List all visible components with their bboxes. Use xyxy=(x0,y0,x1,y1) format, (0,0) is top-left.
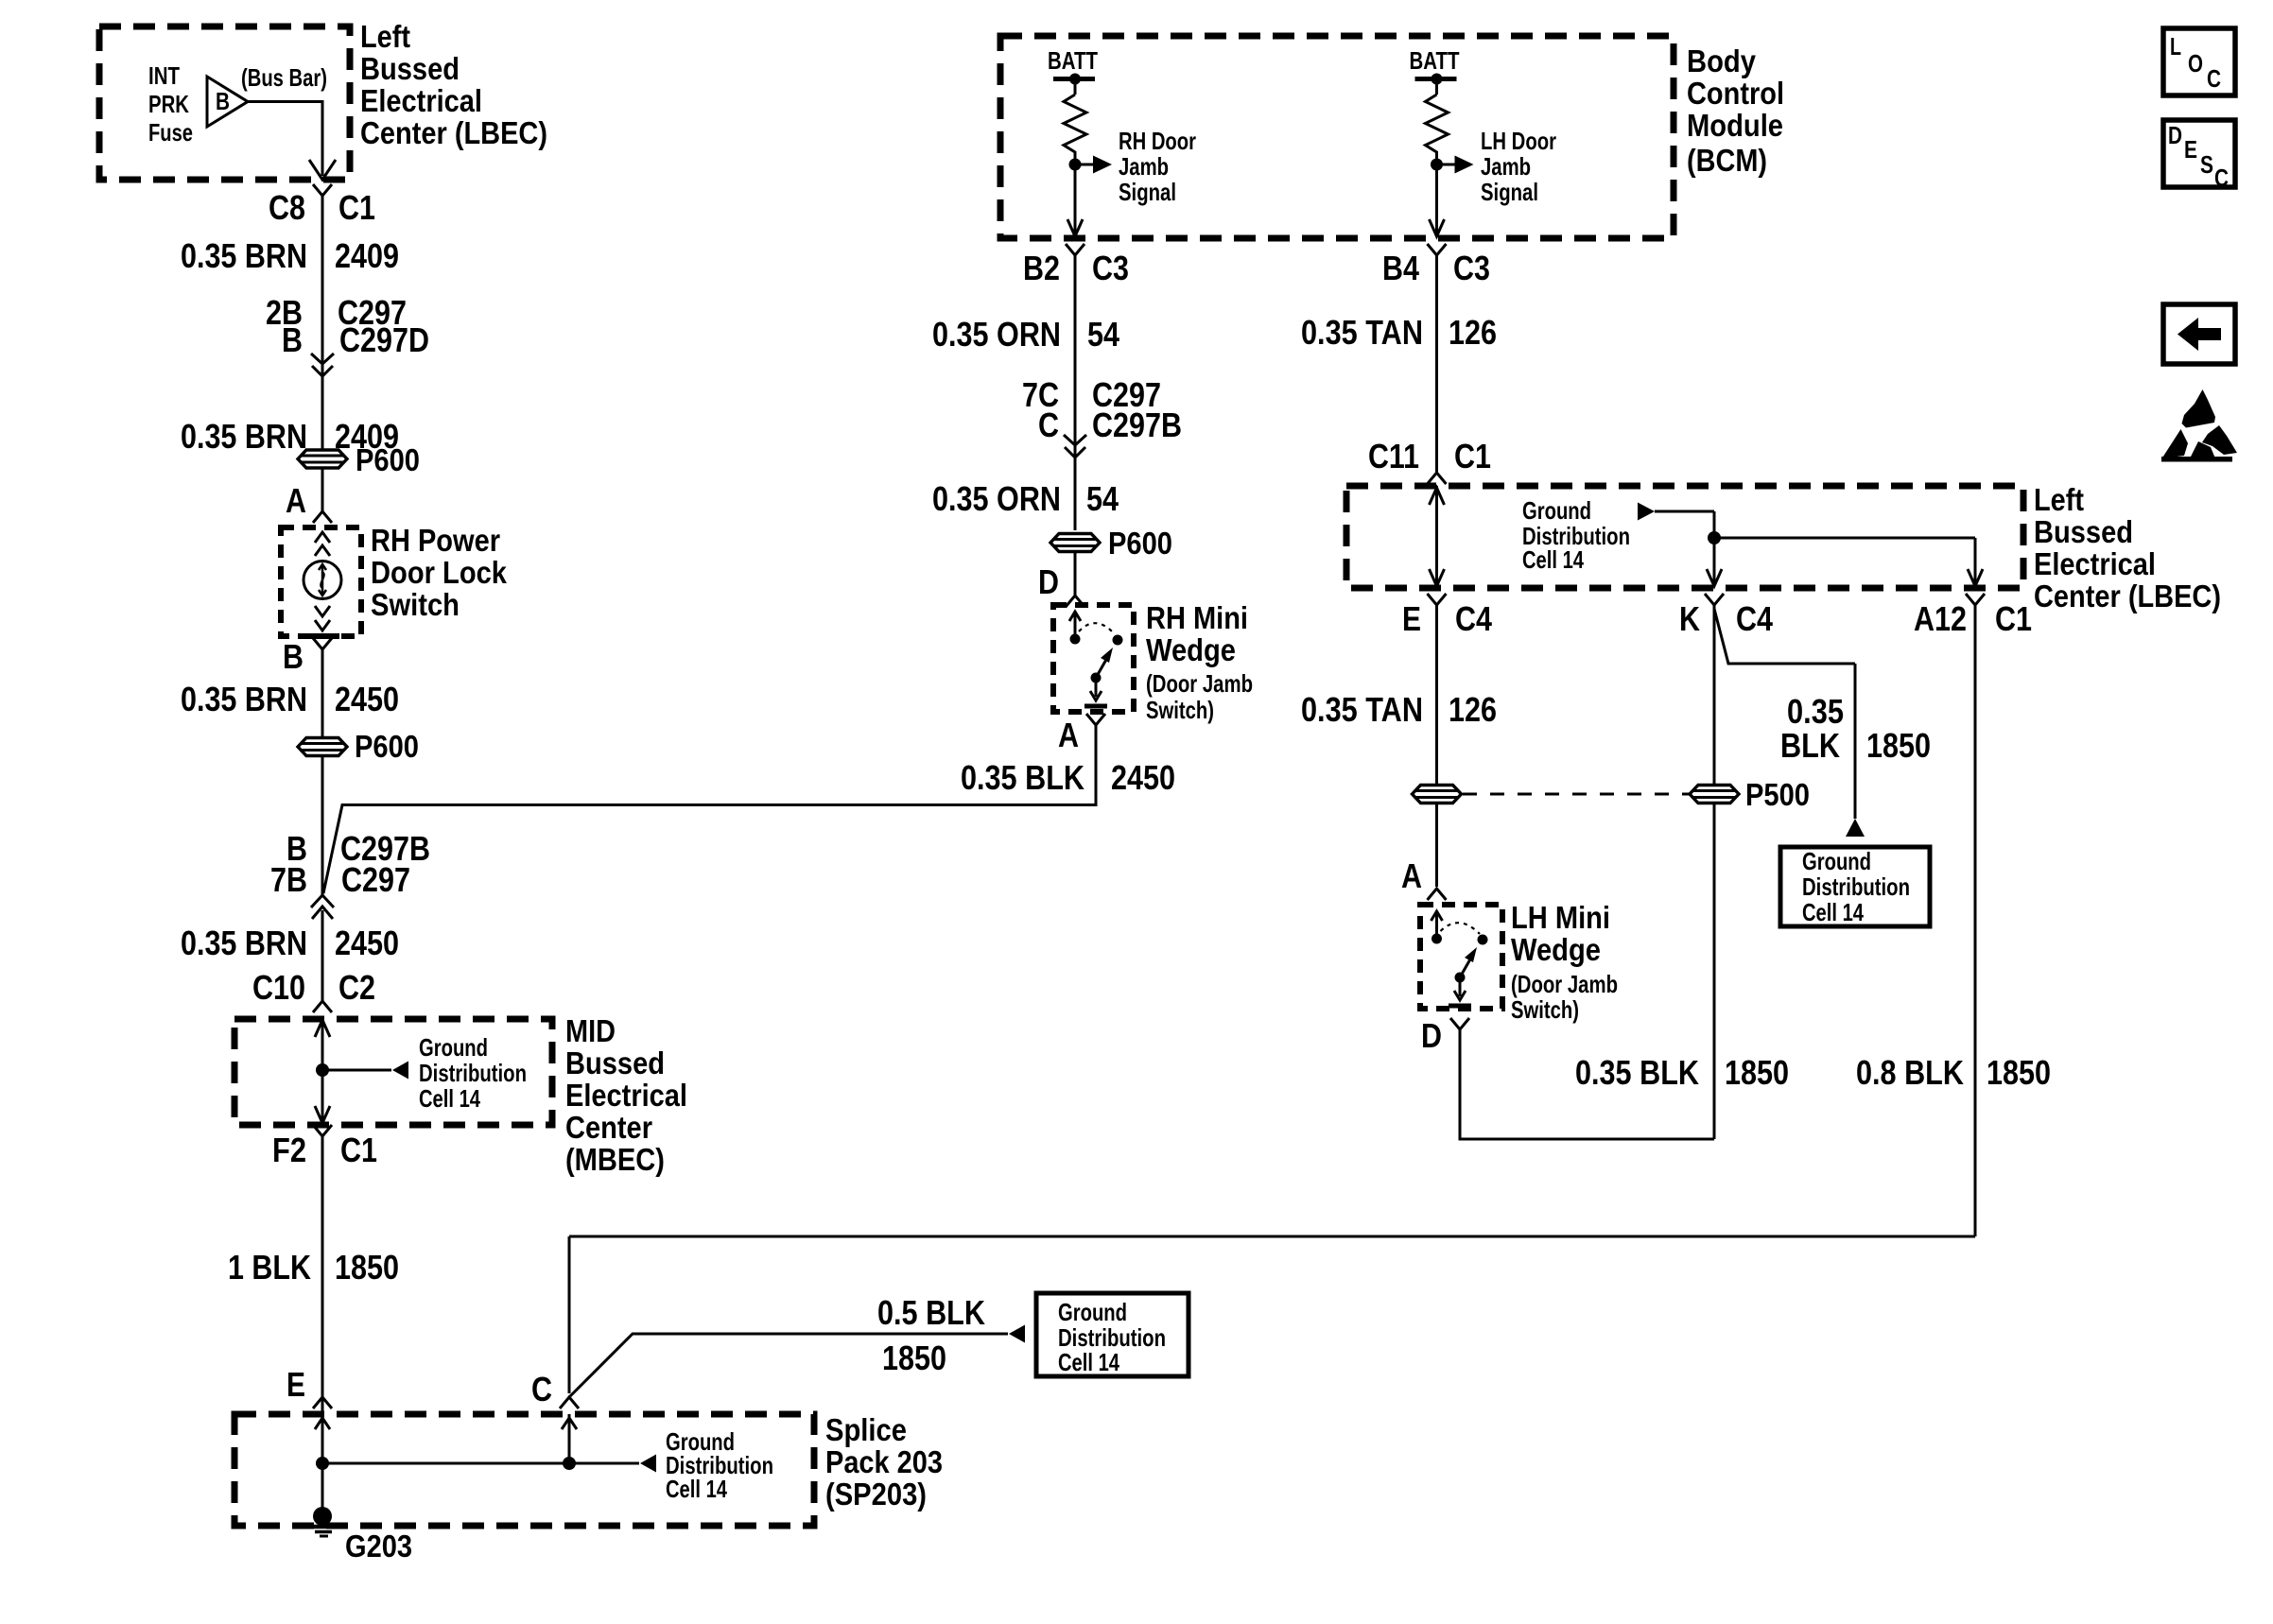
svg-text:Jamb: Jamb xyxy=(1119,152,1169,181)
svg-text:LH Mini: LH Mini xyxy=(1511,900,1610,935)
svg-text:C1: C1 xyxy=(340,1131,377,1169)
svg-text:C3: C3 xyxy=(1092,249,1129,287)
svg-text:0.35 BRN: 0.35 BRN xyxy=(181,236,307,275)
svg-text:D: D xyxy=(1421,1016,1442,1055)
svg-text:0.35 TAN: 0.35 TAN xyxy=(1301,313,1423,352)
svg-text:Bussed: Bussed xyxy=(2034,514,2133,549)
svg-text:B2: B2 xyxy=(1023,249,1060,287)
svg-text:C10: C10 xyxy=(252,968,305,1007)
svg-text:1850: 1850 xyxy=(1987,1053,2051,1092)
svg-text:C8: C8 xyxy=(269,188,305,227)
svg-text:1850: 1850 xyxy=(1866,726,1931,765)
svg-text:0.35 BLK: 0.35 BLK xyxy=(1575,1053,1699,1092)
svg-text:1850: 1850 xyxy=(1725,1053,1789,1092)
svg-text:C1: C1 xyxy=(1995,599,2032,638)
svg-text:Bussed: Bussed xyxy=(565,1045,665,1080)
svg-text:Center (LBEC): Center (LBEC) xyxy=(360,115,547,150)
svg-text:0.8 BLK: 0.8 BLK xyxy=(1856,1053,1964,1092)
svg-text:Control: Control xyxy=(1687,76,1784,111)
svg-text:B4: B4 xyxy=(1382,249,1419,287)
svg-text:Ground: Ground xyxy=(1802,847,1871,875)
svg-text:G203: G203 xyxy=(345,1529,412,1564)
svg-text:C4: C4 xyxy=(1455,599,1492,638)
svg-text:Signal: Signal xyxy=(1119,178,1176,206)
svg-text:A: A xyxy=(286,481,306,520)
svg-text:RH Door: RH Door xyxy=(1119,127,1196,155)
svg-text:S: S xyxy=(2200,150,2213,179)
svg-text:Module: Module xyxy=(1687,108,1783,143)
svg-text:Jamb: Jamb xyxy=(1481,152,1531,181)
svg-text:2409: 2409 xyxy=(335,236,399,275)
svg-text:Center: Center xyxy=(565,1110,652,1145)
svg-text:MID: MID xyxy=(565,1013,616,1048)
svg-text:2450: 2450 xyxy=(335,680,399,718)
svg-text:BLK: BLK xyxy=(1780,726,1840,765)
svg-text:C2: C2 xyxy=(338,968,375,1007)
svg-text:A12: A12 xyxy=(1914,599,1967,638)
svg-text:C1: C1 xyxy=(338,188,375,227)
svg-text:Body: Body xyxy=(1687,43,1757,78)
svg-text:0.35 BRN: 0.35 BRN xyxy=(181,417,307,456)
svg-text:B: B xyxy=(282,320,303,359)
svg-text:Cell 14: Cell 14 xyxy=(419,1084,480,1113)
svg-text:F2: F2 xyxy=(272,1131,306,1169)
svg-text:(Door Jamb: (Door Jamb xyxy=(1146,669,1253,698)
svg-text:Electrical: Electrical xyxy=(565,1078,687,1113)
svg-text:2450: 2450 xyxy=(1111,758,1175,797)
svg-text:B: B xyxy=(216,87,230,115)
svg-text:Electrical: Electrical xyxy=(360,83,482,118)
svg-text:Ground: Ground xyxy=(1522,496,1591,525)
svg-text:0.5 BLK: 0.5 BLK xyxy=(877,1293,985,1332)
svg-text:C3: C3 xyxy=(1453,249,1490,287)
svg-text:C4: C4 xyxy=(1736,599,1773,638)
svg-text:D: D xyxy=(1038,562,1059,601)
svg-text:(SP203): (SP203) xyxy=(825,1477,927,1512)
svg-text:126: 126 xyxy=(1449,690,1497,729)
svg-text:RH Mini: RH Mini xyxy=(1146,600,1248,635)
svg-text:Left: Left xyxy=(360,19,410,54)
svg-text:1850: 1850 xyxy=(335,1248,399,1287)
svg-text:C297: C297 xyxy=(341,860,410,899)
svg-text:O: O xyxy=(2188,49,2203,78)
svg-text:A: A xyxy=(1401,856,1422,895)
svg-text:Switch): Switch) xyxy=(1146,696,1214,724)
svg-text:LH Door: LH Door xyxy=(1481,127,1556,155)
svg-text:C: C xyxy=(2207,64,2221,93)
svg-text:C11: C11 xyxy=(1368,437,1419,475)
svg-text:Center (LBEC): Center (LBEC) xyxy=(2034,579,2221,613)
svg-text:INT: INT xyxy=(148,61,180,90)
svg-text:P600: P600 xyxy=(356,442,420,477)
svg-text:Electrical: Electrical xyxy=(2034,546,2156,581)
svg-text:Ground: Ground xyxy=(419,1033,488,1062)
svg-text:C297D: C297D xyxy=(339,320,429,359)
svg-text:1850: 1850 xyxy=(882,1339,946,1377)
svg-text:Signal: Signal xyxy=(1481,178,1538,206)
svg-text:P600: P600 xyxy=(1108,526,1172,561)
svg-text:Cell 14: Cell 14 xyxy=(1802,898,1864,926)
svg-text:7B: 7B xyxy=(270,860,307,899)
svg-text:C297B: C297B xyxy=(1092,406,1182,444)
svg-text:Fuse: Fuse xyxy=(148,118,193,147)
svg-text:(Door Jamb: (Door Jamb xyxy=(1511,970,1618,998)
svg-text:Splice: Splice xyxy=(825,1412,907,1447)
svg-text:P600: P600 xyxy=(355,729,419,764)
svg-text:126: 126 xyxy=(1449,313,1497,352)
svg-text:E: E xyxy=(1402,599,1421,638)
svg-text:Ground: Ground xyxy=(1058,1298,1127,1326)
svg-text:0.35 BRN: 0.35 BRN xyxy=(181,680,307,718)
svg-text:B: B xyxy=(283,637,304,676)
svg-text:54: 54 xyxy=(1087,315,1119,354)
svg-text:C: C xyxy=(1038,406,1059,444)
svg-text:0.35: 0.35 xyxy=(1787,692,1844,731)
svg-text:D: D xyxy=(2168,121,2182,149)
svg-text:Door Lock: Door Lock xyxy=(371,555,508,590)
svg-text:Cell 14: Cell 14 xyxy=(1058,1348,1119,1376)
svg-text:54: 54 xyxy=(1086,479,1119,518)
svg-text:2450: 2450 xyxy=(335,924,399,962)
svg-text:Wedge: Wedge xyxy=(1511,932,1601,967)
svg-text:BATT: BATT xyxy=(1048,46,1098,75)
svg-text:0.35 ORN: 0.35 ORN xyxy=(932,479,1061,518)
svg-text:Cell 14: Cell 14 xyxy=(666,1475,727,1503)
svg-text:Cell 14: Cell 14 xyxy=(1522,545,1584,574)
svg-text:0.35 BLK: 0.35 BLK xyxy=(961,758,1084,797)
svg-text:Left: Left xyxy=(2034,482,2084,517)
svg-text:A: A xyxy=(1058,716,1079,754)
svg-text:0.35 ORN: 0.35 ORN xyxy=(932,315,1061,354)
svg-text:Wedge: Wedge xyxy=(1146,632,1236,667)
svg-text:RH Power: RH Power xyxy=(371,523,500,558)
svg-text:K: K xyxy=(1679,599,1700,638)
svg-text:BATT: BATT xyxy=(1410,46,1460,75)
svg-text:E: E xyxy=(286,1365,305,1404)
svg-text:P500: P500 xyxy=(1745,777,1810,812)
svg-text:C: C xyxy=(2214,164,2229,192)
svg-text:E: E xyxy=(2184,135,2197,164)
svg-text:(MBEC): (MBEC) xyxy=(565,1142,665,1177)
svg-text:Pack 203: Pack 203 xyxy=(825,1444,943,1479)
svg-text:(BCM): (BCM) xyxy=(1687,143,1767,178)
svg-text:PRK: PRK xyxy=(148,90,189,118)
svg-text:Switch: Switch xyxy=(371,587,460,622)
svg-text:1 BLK: 1 BLK xyxy=(228,1248,311,1287)
svg-text:Switch): Switch) xyxy=(1511,995,1579,1024)
svg-text:L: L xyxy=(2170,32,2181,60)
svg-text:C: C xyxy=(531,1370,552,1408)
svg-text:Distribution: Distribution xyxy=(419,1059,527,1087)
svg-text:(Bus Bar): (Bus Bar) xyxy=(241,63,327,92)
svg-text:Bussed: Bussed xyxy=(360,51,460,86)
svg-text:0.35 TAN: 0.35 TAN xyxy=(1301,690,1423,729)
svg-text:Distribution: Distribution xyxy=(1802,872,1910,901)
svg-text:0.35 BRN: 0.35 BRN xyxy=(181,924,307,962)
svg-text:C1: C1 xyxy=(1454,437,1491,475)
